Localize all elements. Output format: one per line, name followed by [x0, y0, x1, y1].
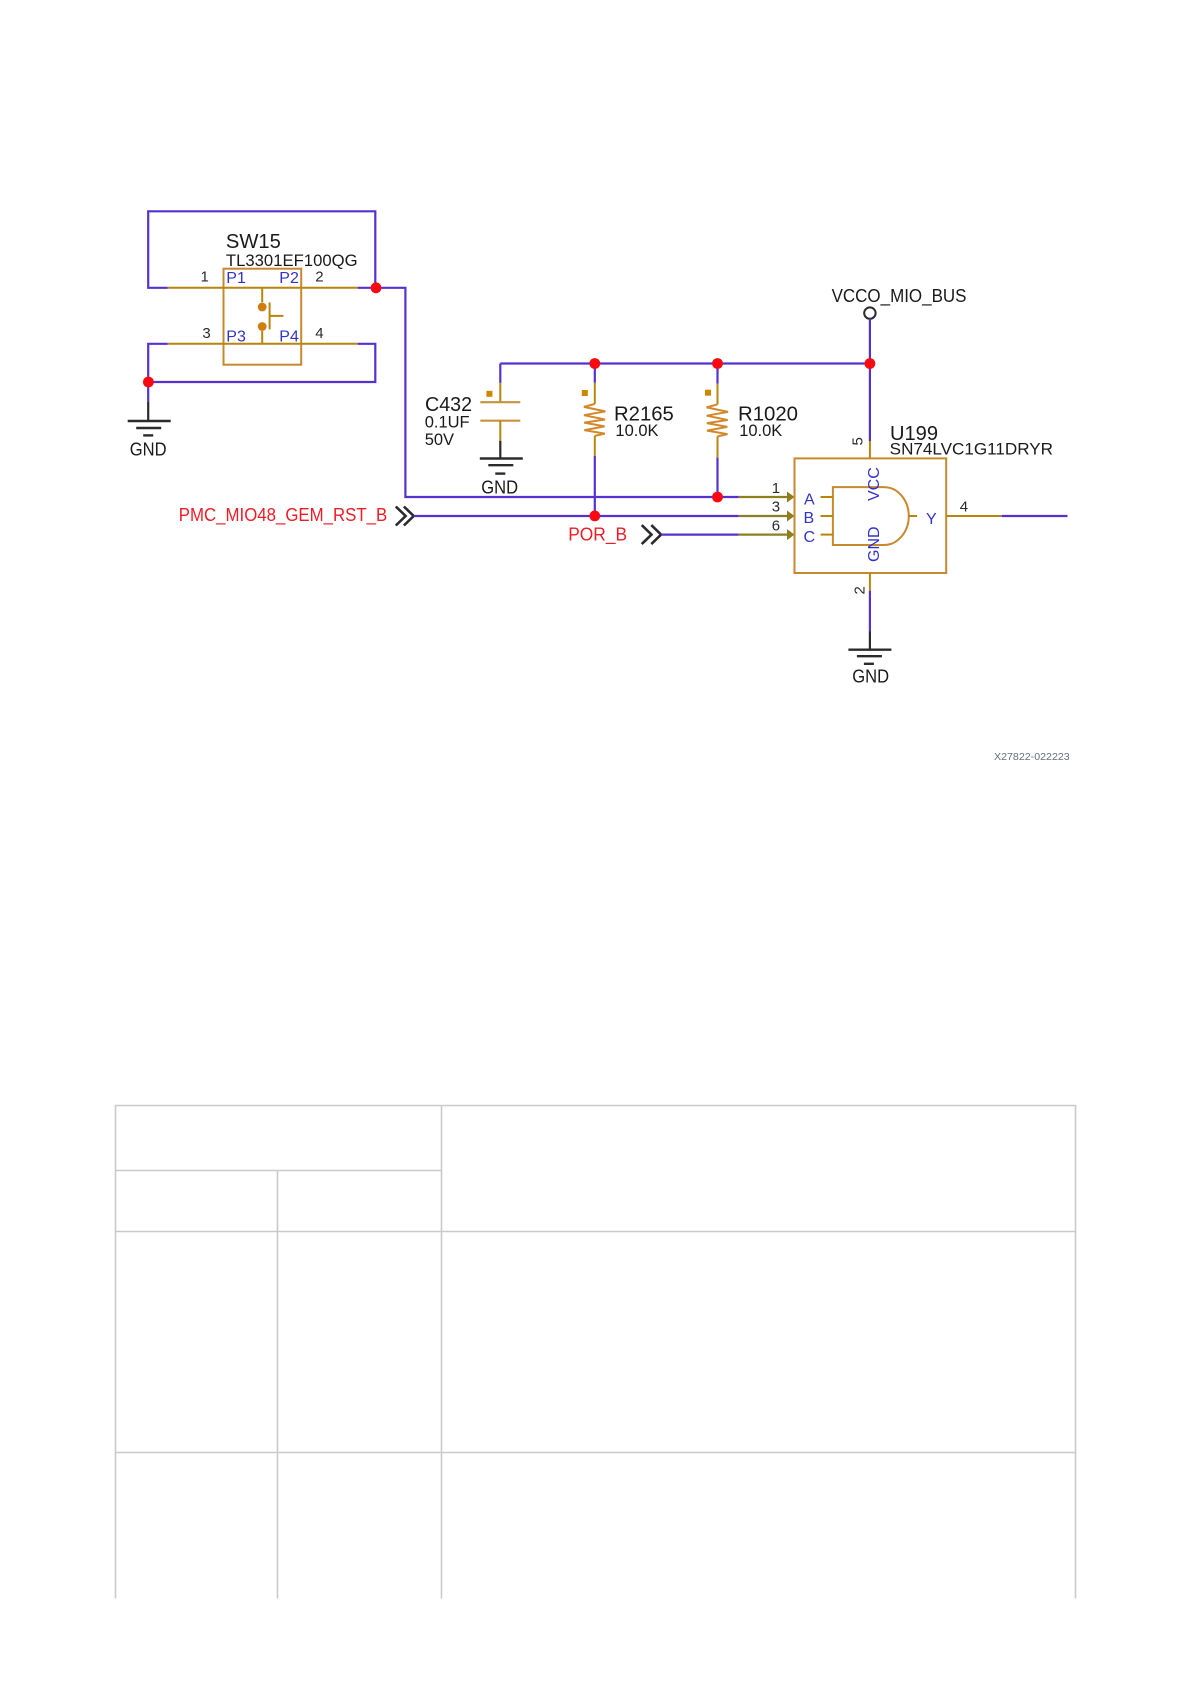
svg-text:GND: GND: [866, 526, 883, 562]
wire: U199 GND drop: [869, 591, 871, 632]
svg-text:GND: GND: [852, 666, 889, 686]
wire: VCCO_MIO_BUS power bus: [500, 362, 870, 364]
gate input stub A: [821, 496, 833, 498]
wire: SW15 bottom loop net (pins 3-4 to GND): [148, 344, 375, 382]
wire: VCC riser from bus to U199 pin 5: [869, 319, 871, 441]
svg-text:Y: Y: [926, 511, 937, 528]
resistor R1020: [705, 384, 728, 458]
switch SW15 body: [224, 269, 302, 365]
wire: R1020 bottom drop to net A line: [716, 458, 718, 497]
svg-text:C: C: [804, 529, 816, 546]
junction dot R1020/net A: [712, 492, 723, 503]
svg-text:PMC_MIO48_GEM_RST_B: PMC_MIO48_GEM_RST_B: [179, 505, 387, 526]
pin U199.6 (C) with arrow: [739, 533, 788, 535]
svg-text:SN74LVC1G11DRYR: SN74LVC1G11DRYR: [890, 440, 1053, 459]
off-page connector chevron POR_B: [642, 525, 661, 544]
svg-text:POR_B: POR_B: [568, 524, 627, 545]
wire: SW15 top loop net (pins 1-2): [148, 211, 375, 287]
wire: R2165 top drop from bus: [594, 364, 596, 383]
wire: net C line from chevron to U199 pin 6: [661, 533, 739, 535]
svg-text:1: 1: [201, 268, 209, 285]
junction dot at SW15 pin2 node: [371, 282, 382, 293]
svg-text:A: A: [804, 491, 815, 508]
svg-text:SW15: SW15: [226, 231, 281, 253]
svg-text:4: 4: [315, 325, 323, 342]
wire: R2165 bottom drop to net B line: [594, 456, 596, 516]
pin U199.5 stub: [869, 441, 871, 458]
svg-text:VCC: VCC: [866, 467, 883, 501]
ground symbol below C432: [480, 459, 523, 474]
pin U199.2 stub: [869, 573, 871, 591]
pin U199.1 (A) with arrow: [739, 496, 788, 498]
svg-text:2: 2: [852, 586, 869, 594]
gate output stub Y: [909, 515, 918, 517]
junction dot R2165/net B: [589, 511, 600, 522]
power symbol VCCO_MIO_BUS open circle: [864, 307, 875, 318]
svg-text:0.1UF: 0.1UF: [425, 413, 470, 431]
svg-text:VCCO_MIO_BUS: VCCO_MIO_BUS: [832, 286, 967, 307]
svg-text:10.0K: 10.0K: [615, 422, 658, 440]
resistor R2165: [582, 383, 606, 456]
table grid lines: [115, 1106, 1077, 1599]
junction dot bus/R1020: [712, 358, 723, 369]
pin U199.3 (B) with arrow: [739, 515, 788, 517]
wire: from node at SW15 pin2 right and down to U199 pin A line: [376, 288, 739, 497]
svg-text:P2: P2: [279, 270, 299, 287]
svg-text:3: 3: [202, 325, 210, 342]
svg-text:P1: P1: [226, 270, 246, 287]
svg-text:P4: P4: [279, 329, 299, 346]
switch SW15 contacts: [258, 288, 284, 344]
junction dot bus/VCC riser: [865, 358, 876, 369]
wire: output net from pin 4: [1002, 515, 1068, 517]
svg-text:1: 1: [772, 480, 780, 497]
gate input stub C: [821, 534, 833, 536]
wire: net B line from chevron to U199 pin 3: [414, 515, 739, 517]
svg-text:P3: P3: [226, 329, 246, 346]
junction dot at SW15 GND node: [143, 377, 154, 388]
svg-text:10.0K: 10.0K: [739, 422, 782, 440]
pin SW15.3-4 row line: [168, 343, 358, 345]
wire: C432 branch from bus: [499, 364, 501, 383]
AND gate symbol U199: [833, 487, 909, 545]
svg-text:TL3301EF100QG: TL3301EF100QG: [226, 251, 358, 270]
wire: GND tap below SW15 loop: [147, 382, 149, 402]
svg-text:B: B: [804, 510, 815, 527]
capacitor C432: [480, 383, 520, 441]
svg-text:4: 4: [960, 498, 968, 515]
gate input stub B: [821, 515, 833, 517]
wire: black GND tap below C432: [499, 441, 501, 459]
svg-text:X27822-022223: X27822-022223: [994, 751, 1070, 763]
svg-text:GND: GND: [130, 439, 167, 459]
op-amp U199 body box: [795, 458, 947, 573]
wire: stub to SW15 pin 2: [358, 287, 376, 289]
svg-text:3: 3: [772, 499, 780, 516]
svg-text:6: 6: [772, 518, 780, 535]
pin U199.4 (Y output): [946, 515, 1002, 517]
svg-text:GND: GND: [481, 477, 518, 497]
svg-text:2: 2: [315, 268, 323, 285]
svg-text:50V: 50V: [425, 431, 454, 449]
pin SW15.1-2 row line: [168, 287, 358, 289]
svg-text:5: 5: [850, 437, 867, 445]
ground symbol below U199: [848, 650, 891, 664]
junction dot bus/R2165: [589, 358, 600, 369]
ground symbol below SW15: [128, 421, 171, 435]
wire: R1020 top drop from bus: [716, 364, 718, 384]
off-page connector chevron PMC_MIO48_GEM_RST_B: [396, 507, 414, 526]
